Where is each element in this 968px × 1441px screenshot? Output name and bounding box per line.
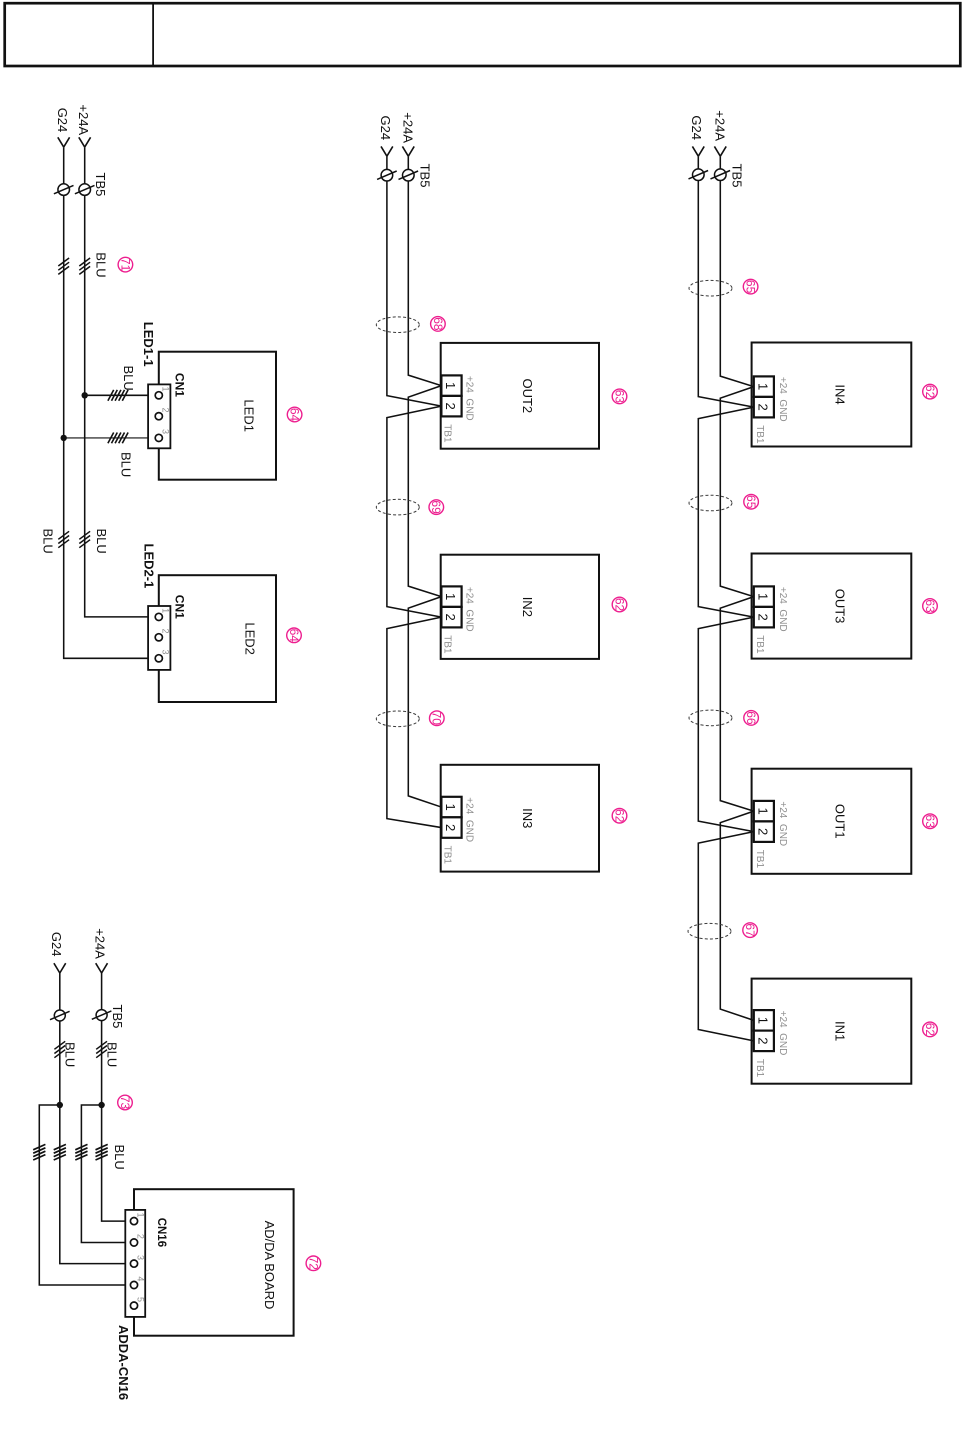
svg-text:+24A: +24A (712, 110, 727, 141)
wire-gauge marks +24A (LED section) (79, 258, 90, 274)
component IN3 box (441, 765, 599, 872)
cable ellipse (67) (688, 923, 731, 939)
svg-text:+24A: +24A (400, 112, 415, 143)
svg-text:3: 3 (136, 1255, 146, 1260)
svg-text:TB1: TB1 (754, 850, 765, 869)
component IN4 box (752, 343, 912, 447)
svg-text:BLU: BLU (104, 1042, 119, 1067)
svg-text:2: 2 (756, 404, 771, 411)
CN16 pin 5 (130, 1302, 137, 1309)
callout balloon (69) (429, 500, 444, 515)
svg-text:IN2: IN2 (520, 597, 535, 617)
junction G24 branch (AD/DA) (57, 1102, 63, 1108)
cable ellipse (66) (689, 710, 732, 726)
svg-text:LED2-1: LED2-1 (141, 544, 156, 589)
svg-text:TB5: TB5 (93, 173, 108, 197)
component AD/DA BOARD box (134, 1189, 294, 1336)
svg-text:BLU: BLU (121, 366, 136, 391)
svg-text:AD/DA BOARD: AD/DA BOARD (262, 1221, 277, 1310)
cable ellipse (65) lower (689, 495, 732, 511)
junction +24A / LED1 tap (82, 392, 88, 398)
off-page arrow +24A (AD/DA) (96, 963, 108, 973)
component OUT3 box (752, 554, 912, 659)
wire-gauge marks +24A (AD/DA) (96, 1041, 107, 1057)
connector TB1 square pin1 (IN2) (441, 586, 461, 607)
callout balloon (65) (744, 494, 759, 509)
off-page arrow G24 (LED section) (58, 137, 70, 147)
callout balloon (62) IN1 (923, 1022, 938, 1037)
svg-text:1: 1 (136, 1213, 146, 1218)
svg-text:IN3: IN3 (520, 808, 535, 828)
svg-text:3: 3 (161, 429, 171, 434)
svg-text:65: 65 (744, 280, 758, 294)
svg-text:LED2: LED2 (242, 622, 257, 655)
svg-text:2: 2 (161, 408, 171, 413)
terminal TB5 on +24A (middle) (399, 169, 419, 181)
callout balloon (66) (744, 711, 759, 726)
svg-text:1: 1 (443, 382, 458, 389)
svg-text:TB1: TB1 (754, 635, 765, 654)
svg-text:63: 63 (923, 599, 937, 613)
wire +24A to LED1 CN1 pin1 (85, 394, 156, 396)
svg-text:OUT2: OUT2 (520, 378, 535, 413)
svg-text:TB1: TB1 (754, 1059, 765, 1078)
svg-text:BLU: BLU (119, 452, 134, 477)
wire G24 rail (right): taps IN4-2, OUT3-2, OUT1-2, ends IN1-2 (698, 156, 754, 1041)
title block table frame (5, 3, 961, 66)
connector TB1 square pin1 (OUT2) (441, 375, 461, 396)
off-page arrow +24A (middle) (402, 146, 414, 156)
junction +24A branch (AD/DA) (98, 1102, 104, 1108)
wire G24 to LED1 CN1 pin3 (64, 437, 156, 439)
svg-text:+24 GND: +24 GND (464, 587, 475, 632)
component LED1 box (159, 352, 276, 480)
svg-text:63: 63 (612, 390, 626, 404)
svg-text:68: 68 (431, 317, 445, 331)
svg-text:LED1-1: LED1-1 (141, 322, 156, 367)
terminal TB5 on G24 (AD/DA) (50, 1010, 70, 1021)
wire-gauge marks G24 (LED section) (58, 258, 69, 274)
connector CN16 (125, 1210, 145, 1317)
LED1 CN1 pin 1 (155, 392, 162, 399)
wire branch +24A to CN16 pin2 (81, 1105, 130, 1243)
callout balloon (65) (743, 279, 758, 294)
callout balloon (67) (743, 923, 758, 938)
svg-text:+24 GND: +24 GND (777, 587, 788, 632)
component IN1 box (752, 979, 912, 1084)
wire-gauge marks branch G24 (AD/DA) (33, 1144, 45, 1160)
off-page arrow G24 (right) (692, 146, 704, 156)
LED2 CN1 pin 3 (155, 655, 162, 662)
svg-text:ADDA-CN16: ADDA-CN16 (116, 1325, 131, 1400)
callout balloon (68) (431, 317, 446, 332)
svg-text:2: 2 (756, 828, 771, 835)
connector TB1 square pin2 (OUT3) (754, 607, 774, 628)
callout balloon (63) OUT1 (923, 814, 938, 829)
wire +24A rail (AD/DA) to CN16 pin1 (102, 973, 131, 1221)
wire +24A rail (right): taps IN4-1, OUT3-1, OUT1-1, ends IN1-1 (720, 156, 754, 1020)
svg-text:67: 67 (743, 923, 757, 937)
svg-text:BLU: BLU (62, 1042, 77, 1067)
connector TB1 square pin2 (IN4) (754, 397, 774, 418)
svg-text:1: 1 (161, 608, 171, 613)
svg-text:G24: G24 (49, 932, 64, 957)
connector TB1 square pin1 (OUT3) (754, 586, 774, 607)
off-page arrow +24A (LED section) (79, 137, 91, 147)
callout balloon (63) OUT3 (923, 599, 938, 614)
callout balloon (62) IN4 (923, 384, 938, 399)
callout balloon (72) AD/DA BOARD (306, 1256, 321, 1271)
callout balloon (62) IN3 (612, 808, 627, 823)
connector TB1 square pin1 (OUT1) (754, 801, 774, 822)
svg-text:2: 2 (756, 1037, 771, 1044)
connector TB1 square pin2 (OUT1) (754, 821, 774, 842)
svg-text:+24 GND: +24 GND (777, 801, 788, 846)
svg-text:BLU: BLU (94, 529, 109, 554)
svg-text:71: 71 (118, 258, 132, 272)
component IN2 box (441, 555, 599, 659)
svg-text:2: 2 (136, 1234, 146, 1239)
svg-text:1: 1 (161, 387, 171, 392)
svg-text:64: 64 (288, 408, 302, 422)
junction G24 / LED1 tap (61, 435, 67, 441)
svg-text:TB5: TB5 (730, 164, 745, 188)
wire-gauge marks G24 (AD/DA) (54, 1041, 65, 1057)
svg-text:65: 65 (744, 495, 758, 509)
callout balloon (62) IN2 (612, 597, 627, 612)
wire-gauge marks +24A (to LED2) (79, 531, 90, 547)
svg-text:3: 3 (161, 650, 171, 655)
svg-text:CN1: CN1 (172, 373, 186, 397)
svg-text:62: 62 (612, 809, 626, 823)
svg-text:1: 1 (756, 383, 771, 390)
svg-text:CN16: CN16 (155, 1218, 167, 1247)
svg-text:TB5: TB5 (110, 1005, 125, 1029)
CN16 pin 2 (130, 1239, 137, 1246)
svg-text:+24 GND: +24 GND (777, 377, 788, 422)
wire-gauge marks G24 (AD/DA) lower (54, 1144, 66, 1160)
svg-text:TB1: TB1 (442, 635, 453, 654)
svg-text:2: 2 (161, 629, 171, 634)
svg-text:LED1: LED1 (241, 399, 256, 432)
svg-text:BLU: BLU (94, 252, 109, 277)
svg-text:2: 2 (443, 403, 458, 410)
svg-text:1: 1 (756, 1017, 771, 1024)
svg-text:+24 GND: +24 GND (464, 376, 475, 421)
svg-text:72: 72 (306, 1257, 320, 1271)
svg-text:+24 GND: +24 GND (464, 797, 475, 842)
svg-text:+24A: +24A (93, 928, 108, 959)
svg-text:TB1: TB1 (442, 424, 453, 443)
cable ellipse (68) (376, 317, 419, 333)
svg-text:1: 1 (756, 808, 771, 815)
LED1 CN1 pin 3 (155, 434, 162, 441)
wire-gauge marks +24A (AD/DA) lower (96, 1144, 108, 1160)
svg-text:+24 GND: +24 GND (777, 1011, 788, 1056)
connector CN1 of LED1 (148, 384, 170, 448)
wire +24A rail (LED section) (85, 147, 156, 617)
svg-text:IN1: IN1 (833, 1021, 848, 1041)
svg-text:2: 2 (443, 824, 458, 831)
callout balloon (64) LED1 (287, 407, 302, 422)
off-page arrow +24A (right) (714, 146, 726, 156)
callout balloon (70) (430, 711, 445, 726)
svg-text:G24: G24 (378, 116, 393, 141)
svg-text:2: 2 (443, 614, 458, 621)
wire G24 rail (AD/DA) to CN16 pin3 (60, 973, 130, 1264)
component OUT2 box (441, 343, 599, 449)
svg-text:G24: G24 (689, 115, 704, 140)
terminal TB5 on G24 (right) (689, 169, 709, 181)
CN16 pin 4 (130, 1281, 137, 1288)
component OUT1 box (752, 769, 912, 874)
svg-text:62: 62 (923, 1023, 937, 1037)
wire G24 rail (middle): taps OUT2-2, IN2-2, ends IN3-2 (387, 156, 442, 827)
wire branch G24 to CN16 pin4 (39, 1105, 130, 1285)
svg-text:1: 1 (443, 803, 458, 810)
cable ellipse (70) (376, 711, 419, 727)
wire-gauge marks LED1 pin3 wire (108, 433, 128, 444)
svg-text:+24A: +24A (76, 104, 91, 135)
title block divider (152, 3, 154, 66)
svg-text:TB1: TB1 (442, 846, 453, 865)
svg-text:CN1: CN1 (173, 595, 187, 619)
svg-text:TB5: TB5 (418, 164, 433, 188)
wire-gauge marks LED1 pin1 wire (108, 390, 128, 401)
CN16 pin 3 (130, 1260, 137, 1267)
svg-text:TB1: TB1 (754, 425, 765, 444)
svg-text:69: 69 (429, 500, 443, 514)
cable ellipse (69) (376, 499, 419, 515)
connector TB1 square pin2 (IN2) (441, 607, 461, 628)
component LED2 box (159, 575, 276, 702)
connector TB1 square pin2 (OUT2) (441, 396, 461, 417)
svg-text:1: 1 (756, 593, 771, 600)
connector TB1 square pin2 (IN3) (441, 817, 461, 838)
svg-text:62: 62 (612, 598, 626, 612)
LED1 CN1 pin 2 (155, 413, 162, 420)
wire +24A rail (middle): taps OUT2-1, IN2-1, ends IN3-1 (408, 156, 441, 807)
wire G24 rail (LED section) (64, 147, 156, 658)
svg-text:OUT3: OUT3 (833, 589, 848, 624)
callout balloon (71) (118, 257, 133, 272)
svg-text:2: 2 (756, 614, 771, 621)
svg-text:BLU: BLU (112, 1145, 127, 1170)
svg-text:1: 1 (443, 593, 458, 600)
terminal TB5 on +24A (right) (711, 169, 731, 181)
LED2 CN1 pin 1 (155, 613, 162, 620)
svg-text:64: 64 (287, 629, 301, 643)
off-page arrow G24 (middle) (381, 146, 393, 156)
connector TB1 square pin1 (IN3) (441, 797, 461, 818)
svg-text:62: 62 (923, 385, 937, 399)
terminal TB5 on G24 (LED section) (54, 184, 74, 196)
terminal TB5 on G24 (middle) (377, 169, 397, 181)
svg-text:BLU: BLU (41, 529, 56, 554)
connector TB1 square pin1 (IN1) (754, 1010, 774, 1031)
callout balloon (73) (118, 1095, 133, 1110)
callout balloon (64) LED2 (287, 628, 302, 643)
connector TB1 square pin1 (IN4) (754, 376, 774, 397)
svg-text:G24: G24 (55, 108, 70, 133)
svg-text:OUT1: OUT1 (833, 804, 848, 839)
connector TB1 square pin2 (IN1) (754, 1031, 774, 1052)
svg-text:66: 66 (744, 711, 758, 725)
callout balloon (63) OUT2 (612, 389, 627, 404)
wire-gauge marks branch +24A (AD/DA) (75, 1144, 87, 1160)
terminal TB5 on +24A (AD/DA) (92, 1010, 112, 1021)
svg-text:63: 63 (923, 815, 937, 829)
svg-text:5: 5 (136, 1297, 146, 1302)
svg-text:73: 73 (118, 1096, 132, 1110)
svg-text:IN4: IN4 (833, 384, 848, 404)
connector CN1 of LED2 (148, 606, 170, 670)
svg-text:70: 70 (430, 712, 444, 726)
cable ellipse (65) upper (689, 280, 732, 296)
CN16 pin 1 (130, 1218, 137, 1225)
off-page arrow G24 (AD/DA) (54, 963, 66, 973)
LED2 CN1 pin 2 (155, 634, 162, 641)
wire-gauge marks G24 (to LED2) (58, 531, 69, 547)
svg-text:4: 4 (136, 1276, 146, 1281)
terminal TB5 on +24A (LED section) (75, 184, 95, 196)
